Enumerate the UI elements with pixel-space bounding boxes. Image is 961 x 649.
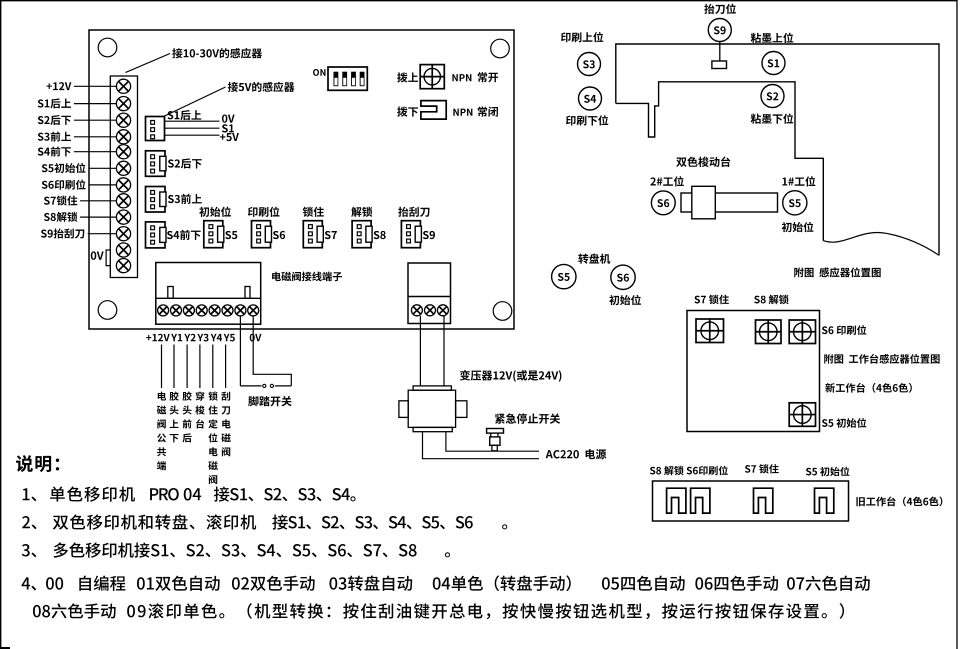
wire output 4	[212, 345, 214, 389]
terminal screw 10	[116, 227, 130, 241]
label 脚踏开关	[248, 396, 292, 406]
connector S9 (3-pin)	[401, 221, 421, 248]
wire S4前下 to screw	[74, 151, 117, 153]
terminal screw 8	[116, 194, 130, 208]
fork sensor S7	[754, 488, 773, 513]
label S5 初始位	[822, 418, 866, 428]
wire S8解锁 to screw	[80, 216, 116, 218]
wire S7锁住 to screw	[80, 200, 116, 202]
note line 3	[22, 542, 450, 557]
wire 0V bracket to screws 11-12	[106, 250, 110, 266]
label 解锁	[351, 207, 372, 217]
wire S1 from S1 connector	[165, 127, 220, 129]
label +12V	[47, 82, 72, 90]
terminal block divider	[156, 297, 261, 299]
label Y5 output	[224, 334, 235, 342]
valve terminal screw 8	[248, 305, 259, 316]
note line 4	[22, 575, 870, 591]
label S1后上	[38, 98, 71, 108]
wire +5V from S1 connector	[165, 134, 220, 136]
label S7	[325, 231, 337, 239]
label 转盘机	[578, 254, 610, 264]
label 拨上	[397, 72, 418, 82]
terminal screw 3	[116, 113, 130, 127]
label 粘墨上位	[751, 33, 794, 43]
wire output 0	[161, 345, 163, 389]
label 粘墨下位	[751, 113, 794, 123]
S5 in circle (shuttle)	[789, 199, 801, 207]
wire S2后下 to screw	[74, 119, 117, 121]
sensor square S6	[789, 320, 815, 344]
connector S1 (3-pin)	[146, 117, 165, 141]
label 初始位 (shuttle)	[782, 222, 814, 232]
old worktable outline	[653, 481, 849, 521]
label 初始位 (rotary)	[609, 295, 641, 305]
S4 in circle	[584, 95, 596, 103]
board mounting hole top-right	[491, 39, 510, 58]
wire screw7 down to foot switch	[239, 316, 241, 386]
label S6	[273, 231, 285, 239]
wire 0V from S1 connector	[165, 120, 220, 122]
sensor S2 circle	[761, 85, 784, 108]
label AC220 电源	[546, 449, 607, 459]
label 常闭	[478, 107, 498, 117]
note line 5	[33, 603, 844, 619]
S9 bracket	[712, 61, 727, 69]
label S3前上	[168, 194, 202, 204]
connector S5 (3-pin)	[204, 221, 224, 248]
board mounting hole bottom-right	[493, 302, 512, 321]
valve terminal screw 2	[171, 305, 182, 316]
sensor S5 circle (shuttle)	[783, 191, 807, 215]
label Y1 output	[171, 334, 182, 341]
S9 in circle	[714, 26, 726, 34]
page bottom-left border stub	[0, 647, 10, 649]
wire S3前上 to screw	[74, 136, 117, 138]
label S4前下	[38, 146, 71, 156]
sensor S6 circle (rotary)	[611, 265, 635, 289]
wire transformer to AC220 line B	[446, 432, 539, 452]
new worktable outline	[687, 311, 820, 432]
label 电磁阀接线端子	[272, 272, 342, 282]
sensor S5 circle (rotary)	[552, 264, 576, 288]
label S8 解锁 S6印刷位	[650, 466, 728, 476]
valve terminal screw 4	[196, 305, 207, 316]
S6 in circle (shuttle)	[657, 199, 669, 207]
terminal screw 7	[116, 178, 130, 192]
label 新工作台（4色6色）	[825, 383, 912, 393]
label 说明：	[16, 455, 59, 472]
shuttle block	[692, 186, 716, 219]
wire S5初始位 to screw	[89, 167, 117, 169]
valve terminal screw 7	[235, 305, 246, 316]
label Y3 output	[197, 334, 208, 342]
label S2后下	[168, 158, 202, 168]
fork sensor S8	[667, 488, 686, 513]
power terminal block body	[408, 263, 451, 324]
leader line to terminal strip	[126, 54, 171, 73]
label S5	[225, 231, 237, 239]
wire S6印刷位 to screw	[89, 184, 117, 186]
S6 in circle (rotary)	[617, 274, 629, 282]
connector S8 (3-pin)	[352, 221, 372, 248]
label 拨下	[397, 107, 418, 117]
wire output 2	[186, 345, 188, 389]
terminal screw 4	[116, 130, 130, 144]
label 抬刀位	[704, 4, 736, 14]
DIP switch SW1	[328, 67, 367, 90]
label +5V (S1 wire)	[220, 133, 239, 141]
sensor S4 circle	[579, 87, 602, 110]
terminal screw 6	[116, 161, 130, 175]
label 初始位	[199, 207, 231, 217]
page left border line	[0, 0, 2, 649]
note line 2	[22, 514, 507, 529]
label S9抬刮刀	[41, 229, 84, 239]
connector S6 (3-pin)	[252, 221, 272, 248]
S5 in circle (rotary)	[558, 273, 570, 281]
valve terminal screw 6	[222, 305, 233, 316]
wire output 5	[225, 345, 227, 389]
terminal screw 5	[116, 145, 130, 159]
wire output 3	[199, 345, 201, 389]
sensor square S5	[789, 403, 815, 427]
label 2#工位	[650, 176, 683, 186]
label NPN (top)	[452, 74, 471, 81]
leader line to S1 connector	[164, 87, 226, 117]
emergency stop switch	[487, 429, 504, 451]
wire transformer to AC220 line A	[423, 432, 540, 459]
label 0V (S1 wire)	[222, 114, 235, 122]
label 印刷下位	[566, 115, 608, 125]
NPN normally-open sensor symbol	[420, 65, 444, 89]
shuttle rail	[681, 193, 778, 212]
S2 in circle	[767, 92, 779, 100]
valve terminal screw 1	[158, 305, 169, 316]
controller PCB board outline	[89, 30, 514, 329]
foot switch contacts	[240, 385, 261, 387]
wire +12V to screw	[74, 85, 117, 87]
wire S9抬刮刀 to screw	[88, 233, 117, 235]
label S5 初始位 (old)	[806, 467, 850, 477]
connector S2 (3-pin)	[146, 151, 167, 177]
power terminal screw 1	[411, 305, 422, 316]
label 印刷位	[248, 207, 279, 217]
label 印刷上位	[561, 32, 603, 42]
label 变压器12V（或是24V)	[460, 370, 562, 382]
label S8 解锁	[754, 295, 788, 305]
connector S3 (3-pin)	[146, 187, 167, 213]
fork sensor S6	[691, 488, 710, 513]
sensor square S8	[756, 320, 782, 344]
S1 in circle	[768, 59, 780, 67]
valve terminal screw 5	[209, 305, 220, 316]
terminal screw 11	[116, 243, 130, 257]
label 1#工位	[782, 176, 815, 186]
label 0V	[91, 251, 104, 259]
label S6印刷位	[42, 180, 86, 190]
label 附图 感应器位置图	[794, 267, 880, 277]
sensor S9 circle	[708, 19, 731, 42]
power terminal divider	[408, 296, 451, 298]
transformer body	[399, 386, 467, 432]
wire terminal to transformer right	[443, 316, 445, 386]
solenoid valve terminal block body	[156, 263, 261, 325]
page top border line	[0, 0, 958, 2]
label column 穿梭台	[195, 391, 204, 428]
label 接10-30V的感应器	[172, 48, 262, 58]
label S4前下	[167, 230, 201, 240]
label S8解锁	[44, 212, 77, 222]
label column 电磁阀公共端	[157, 392, 166, 471]
label 旧工作台（4色6色）	[856, 496, 942, 506]
label S7 锁住 (old)	[745, 464, 779, 473]
label S7 锁住	[694, 295, 728, 305]
NPN normally-closed sensor symbol	[421, 101, 446, 120]
label S3前上	[38, 132, 71, 142]
power terminal screw 2	[425, 305, 436, 316]
label S2后下	[38, 115, 71, 125]
label S5初始位	[42, 163, 86, 173]
sensor S6 circle (shuttle)	[651, 191, 675, 215]
power terminal screw 3	[437, 305, 448, 316]
terminal block key tab left	[168, 287, 173, 299]
connector S4 (3-pin)	[146, 222, 167, 248]
wire S9 to bracket	[719, 42, 721, 62]
wire screw8 to foot switch right	[253, 316, 291, 386]
sensor S3 circle	[578, 53, 601, 76]
label 附图 工作台感应器位置图	[824, 354, 939, 364]
sensor square S7	[696, 319, 724, 343]
label S1 (S1 wire)	[222, 124, 234, 132]
label 0V output	[250, 334, 262, 342]
label column 刮刀电磁阀	[221, 392, 230, 457]
machine outline lower steps	[616, 82, 824, 241]
sensor input terminal strip	[110, 76, 137, 278]
valve terminal screw 3	[183, 305, 194, 316]
S3 in circle	[583, 60, 595, 68]
terminal screw 9	[116, 210, 130, 224]
label column 胶头前后	[182, 391, 191, 442]
machine outline profile	[616, 44, 939, 255]
label +12V output	[146, 334, 170, 342]
label ON	[313, 69, 325, 76]
connector S7 (3-pin)	[303, 221, 323, 248]
board mounting hole top-left	[98, 38, 117, 57]
wire terminal to transformer left	[419, 316, 421, 386]
label column 胶头上下	[169, 391, 178, 442]
label Y2 output	[184, 334, 195, 342]
wire output 1	[173, 345, 175, 389]
fork sensor S5	[815, 488, 834, 513]
label 锁住	[303, 207, 324, 217]
label Y4 output	[211, 334, 222, 341]
label 紧急停止开关	[495, 413, 560, 423]
label 接5V的感应器	[228, 82, 295, 92]
board mounting hole bottom-left	[98, 301, 117, 320]
label S9	[423, 231, 435, 239]
note line 1	[23, 486, 356, 501]
label 常开	[478, 72, 498, 82]
label column 锁住定位电磁阀	[208, 392, 217, 485]
terminal block key tab right	[245, 287, 250, 299]
sensor S1 circle	[762, 52, 785, 75]
label S6 印刷位	[822, 325, 866, 335]
label NPN (bottom)	[453, 109, 472, 116]
label 抬刮刀	[398, 207, 429, 217]
terminal screw 12	[116, 259, 130, 273]
terminal screw 2	[116, 97, 130, 111]
wire S1后上 to screw	[74, 103, 117, 105]
label S1后上	[167, 110, 201, 120]
label S7锁住	[44, 196, 77, 206]
page right border line	[956, 0, 958, 649]
terminal screw 1	[116, 79, 130, 93]
label S8	[374, 231, 386, 239]
machine outline wavy bottom	[823, 233, 939, 256]
label 双色梭动台	[676, 156, 730, 167]
